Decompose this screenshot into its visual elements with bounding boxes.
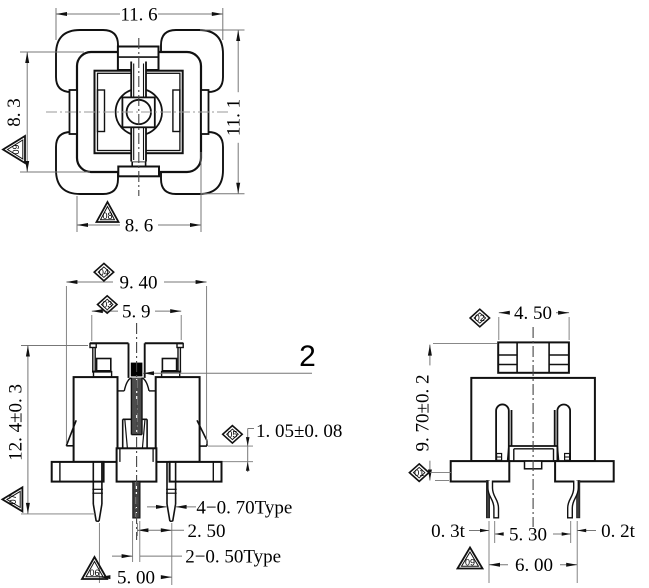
side bottom tab: [525, 461, 542, 469]
dim 5.9 extension lines: [91, 315, 93, 341]
front left foot: [66, 420, 76, 446]
svg-text:08: 08: [102, 211, 112, 221]
svg-text:09: 09: [465, 557, 475, 567]
flag triangle 07: [2, 487, 22, 511]
svg-text:8. 6: 8. 6: [125, 216, 154, 237]
dim 9.40 extension lines: [65, 286, 67, 444]
top view vertical centerline: [138, 38, 140, 196]
top view top tab: [118, 47, 159, 71]
front right tower: [156, 377, 200, 462]
svg-text:9. 40: 9. 40: [120, 273, 158, 294]
front vertical centerline: [136, 323, 138, 540]
svg-text:2−0. 50Type: 2−0. 50Type: [185, 547, 281, 568]
top view center circle: [116, 89, 162, 135]
top view inner frame: [95, 71, 183, 154]
dim 8.3 extension lines: [20, 51, 84, 53]
dim 9.70 extension lines: [433, 342, 497, 344]
front right pin: [166, 462, 168, 504]
svg-text:04: 04: [99, 267, 109, 277]
svg-text:2: 2: [299, 340, 316, 373]
dim 2-0.50 extension lines: [132, 521, 134, 562]
dim 9.40 line: [66, 281, 113, 283]
dim 5.30 line: [495, 533, 503, 535]
dim 4-0.70 arrows: [147, 506, 167, 508]
svg-text:11. 1: 11. 1: [224, 99, 245, 136]
top view shaft upper: [131, 62, 146, 98]
svg-text:06: 06: [89, 568, 99, 578]
front cup: [122, 419, 124, 448]
front black square part 2: [131, 363, 143, 377]
svg-text:0. 2t: 0. 2t: [601, 521, 636, 542]
dim 1.05 line: [247, 429, 249, 473]
dim 11.6 line: [56, 13, 120, 15]
dim 5.00 line: [99, 576, 107, 578]
flag triangle 06: [82, 557, 107, 579]
part 2 leader: [143, 372, 312, 374]
dim 0.3t ext: [488, 521, 490, 583]
side vertical centerline: [532, 327, 534, 527]
flag triangle 09 side view: [458, 548, 483, 569]
flag diamond 05: [223, 426, 243, 444]
dim 1.05 extension lines: [208, 445, 253, 447]
side left pin: [486, 481, 489, 518]
svg-text:11. 6: 11. 6: [120, 5, 157, 26]
top view left side tab: [70, 90, 78, 134]
svg-text:01: 01: [414, 468, 424, 478]
front shaft dark: [131, 378, 142, 435]
flag diamond 01: [409, 464, 429, 482]
side flange right: [555, 461, 614, 481]
front flange left: [52, 462, 104, 482]
side cap: [498, 342, 569, 372]
dim 11.1 line: [237, 30, 239, 194]
dim 9.70 line: [429, 345, 431, 481]
front right post: [145, 342, 184, 344]
flag triangle 08: [97, 202, 119, 222]
svg-text:9. 70±0. 2: 9. 70±0. 2: [413, 375, 434, 452]
dim 9.70 text: [418, 365, 436, 460]
dim 4.50 extension lines: [498, 317, 500, 340]
top view right notch: [173, 90, 180, 132]
svg-text:02: 02: [475, 313, 485, 323]
top view body outline: [77, 52, 201, 172]
dim 8.6 line: [77, 224, 120, 226]
svg-text:07: 07: [8, 494, 18, 504]
dim 12.4 extension lines: [21, 345, 88, 347]
side flange left: [451, 461, 510, 481]
svg-text:0. 3t: 0. 3t: [431, 521, 466, 542]
svg-text:5. 30: 5. 30: [509, 525, 547, 546]
svg-text:5. 00: 5. 00: [117, 568, 155, 588]
svg-text:12. 4±0. 3: 12. 4±0. 3: [6, 384, 27, 461]
svg-text:1. 05±0. 08: 1. 05±0. 08: [256, 421, 342, 442]
dim 4.50 line: [499, 312, 510, 314]
front left tower: [74, 377, 118, 462]
flag diamond 02: [470, 309, 490, 327]
front center pin: [133, 481, 140, 518]
svg-text:03: 03: [102, 300, 112, 310]
front flares: [124, 378, 131, 391]
front center block: [117, 448, 157, 481]
side center block: [509, 445, 558, 447]
flag diamond 03: [98, 296, 118, 313]
front left post: [90, 342, 129, 344]
dim 11.6 extension lines: [55, 8, 57, 40]
dim 2.50 extension lines: [136, 523, 138, 536]
svg-text:09: 09: [11, 144, 21, 154]
dim 5.00 extension lines: [98, 523, 100, 583]
top view center square: [122, 97, 154, 127]
dim 8.3 line: [26, 52, 28, 172]
svg-text:05: 05: [227, 430, 237, 440]
top view left notch: [98, 90, 105, 132]
top view shaft lower: [131, 127, 146, 161]
dim 0.2t ext: [570, 521, 572, 543]
svg-text:4. 50: 4. 50: [514, 303, 552, 324]
dim 6.00 line: [489, 564, 508, 566]
top view corner lobes: [56, 30, 118, 92]
top view bottom tab: [132, 162, 145, 167]
svg-text:2. 50: 2. 50: [188, 521, 226, 542]
dim 2-0.50 line: [112, 555, 133, 557]
flag triangle 09 top view: [3, 136, 25, 163]
dim 0.3t line: [469, 530, 489, 532]
dim 5.9 line: [92, 310, 118, 312]
top view horizontal centerline: [46, 111, 233, 113]
top view inner circle: [127, 100, 151, 124]
side right pin: [577, 481, 580, 518]
side body: [471, 378, 595, 461]
side right finger: [557, 404, 570, 460]
side left finger: [496, 404, 509, 460]
dim 0.2t line: [577, 530, 596, 532]
svg-text:6. 00: 6. 00: [515, 555, 553, 576]
front right foot: [197, 420, 207, 440]
front left pin: [92, 462, 94, 504]
top view right side tab: [201, 90, 209, 134]
front flange right: [170, 462, 222, 482]
svg-text:4−0. 70Type: 4−0. 70Type: [196, 498, 292, 519]
dim 12.4 line: [27, 346, 29, 514]
dim 8.6 extension lines: [76, 196, 78, 232]
dim 11.1 text: [229, 92, 247, 143]
dim 11.1 extension lines: [200, 29, 245, 31]
dim 2.50 line: [137, 529, 184, 531]
svg-text:8. 3: 8. 3: [4, 98, 25, 127]
svg-text:5. 9: 5. 9: [122, 302, 151, 323]
flag diamond 04: [94, 263, 114, 281]
